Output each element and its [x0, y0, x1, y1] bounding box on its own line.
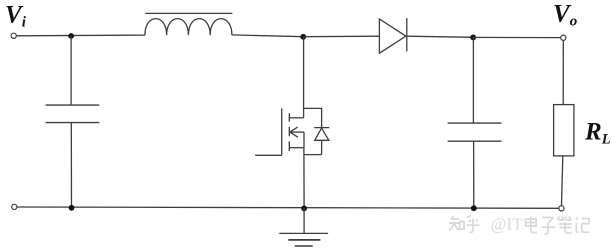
svg-text:Vo: Vo: [553, 1, 577, 30]
terminal output return: [559, 206, 564, 211]
wire inductor to drain node: [232, 35, 304, 37]
node junction output-top: [470, 35, 476, 41]
node junction input: [68, 33, 74, 39]
svg-text:RL: RL: [584, 119, 611, 148]
wire cap C2 top lead: [472, 37, 474, 123]
terminal input return: [12, 204, 17, 209]
ground: [279, 233, 328, 246]
node junction bottom-left: [69, 205, 75, 211]
diode D2 body-diode: [304, 128, 329, 155]
svg-text:Vi: Vi: [5, 2, 27, 31]
wire bottom rail: [17, 207, 559, 208]
capacitor C1: [46, 105, 100, 123]
wire diode D1 to output node: [407, 36, 473, 37]
wire RL bottom lead: [562, 156, 563, 206]
wire cap C1 top lead: [70, 36, 72, 105]
node junction bottom-mid: [301, 206, 307, 212]
wire RL top lead: [562, 40, 564, 104]
node junction drain-top: [300, 34, 306, 40]
transistor Q1: [255, 108, 304, 155]
diode D1: [379, 18, 406, 53]
terminal input +: [11, 33, 16, 38]
wire output to terminal: [473, 36, 560, 38]
wire ground lead: [303, 208, 305, 233]
resistor RL: [554, 105, 574, 156]
wire cap C2 bottom lead: [473, 141, 475, 208]
node junction bottom-right: [471, 205, 477, 211]
watermark 知乎 @IT电子笔记: [449, 216, 589, 235]
wire drain vertical: [303, 37, 305, 118]
terminal output +: [561, 35, 566, 40]
wire body-diode top branch: [304, 108, 322, 127]
wire top-left: [16, 34, 145, 37]
svg-text:@IT: @IT: [491, 215, 523, 234]
capacitor C2: [448, 123, 502, 141]
wire source vertical: [303, 148, 305, 209]
wire top rail to diode D1: [303, 35, 379, 38]
inductor L1: [145, 13, 233, 35]
wire cap C1 bottom lead: [70, 123, 72, 208]
